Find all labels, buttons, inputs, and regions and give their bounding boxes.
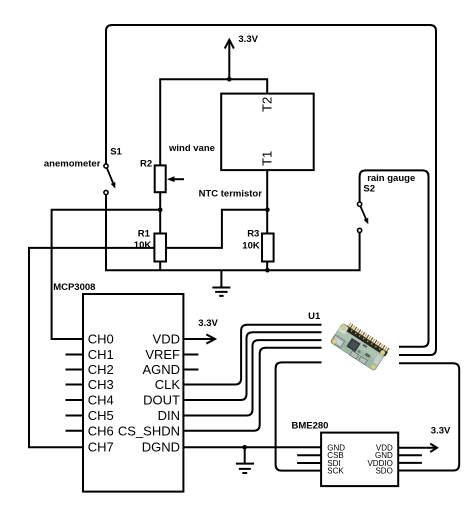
svg-text:S2: S2 [363, 184, 375, 195]
svg-text:CH2: CH2 [88, 362, 114, 377]
svg-text:CH0: CH0 [88, 332, 114, 347]
svg-text:S1: S1 [110, 146, 122, 157]
svg-text:DOUT: DOUT [143, 393, 180, 408]
svg-text:10K: 10K [242, 240, 260, 251]
svg-text:U1: U1 [308, 311, 321, 322]
svg-text:CH5: CH5 [88, 408, 114, 423]
svg-text:3.3V: 3.3V [431, 425, 451, 436]
svg-text:CH3: CH3 [88, 377, 114, 392]
svg-text:T2: T2 [259, 97, 274, 112]
svg-text:CH4: CH4 [88, 393, 114, 408]
svg-text:SCK: SCK [327, 467, 344, 476]
svg-text:R2: R2 [140, 158, 152, 169]
svg-text:T1: T1 [259, 151, 274, 166]
svg-text:rain gauge: rain gauge [367, 173, 415, 184]
svg-text:R3: R3 [247, 228, 259, 239]
svg-text:DGND: DGND [142, 440, 180, 455]
svg-text:CH6: CH6 [88, 424, 114, 439]
svg-text:BME280: BME280 [292, 421, 329, 432]
svg-text:CH7: CH7 [88, 440, 114, 455]
svg-text:DIN: DIN [158, 408, 180, 423]
svg-text:10K: 10K [134, 240, 152, 251]
svg-text:AGND: AGND [142, 362, 180, 377]
svg-text:SDO: SDO [375, 467, 392, 476]
svg-text:VDD: VDD [153, 332, 180, 347]
svg-text:3.3V: 3.3V [238, 34, 258, 45]
svg-text:MCP3008: MCP3008 [53, 282, 95, 293]
svg-text:3.3V: 3.3V [198, 318, 218, 329]
svg-text:CH1: CH1 [88, 347, 114, 362]
svg-text:CS_SHDN: CS_SHDN [118, 424, 180, 439]
svg-text:CLK: CLK [155, 377, 181, 392]
svg-text:NTC termistor: NTC termistor [199, 188, 263, 199]
svg-text:anemometer: anemometer [44, 158, 101, 169]
svg-text:VREF: VREF [145, 347, 180, 362]
svg-text:R1: R1 [138, 228, 151, 239]
svg-text:wind vane: wind vane [168, 143, 215, 154]
